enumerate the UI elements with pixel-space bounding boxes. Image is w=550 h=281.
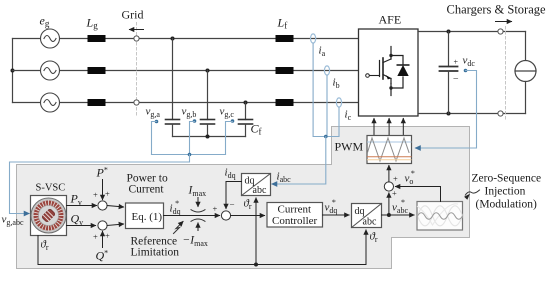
node DC cap minus: [447, 112, 451, 116]
summing junction P: [98, 201, 107, 210]
svg-text:abc: abc: [253, 185, 267, 196]
capacitor Cf b: [201, 71, 215, 137]
wire vabc up to junction: [388, 193, 390, 215]
node iabc bus junction: [324, 135, 328, 139]
wire zero sequence output: [396, 187, 441, 202]
svg-text:idq*: idq*: [170, 199, 181, 216]
svg-text:vdq*: vdq*: [325, 198, 338, 215]
node cap c tap: [244, 101, 248, 105]
wire capacitor neutral bus: [173, 136, 246, 138]
wire Q star arrow: [102, 232, 104, 248]
source eg phase a: [41, 29, 60, 48]
svg-text:+: +: [105, 231, 110, 241]
source eg phase b: [41, 61, 60, 80]
wire mod to PWM: [388, 166, 390, 182]
gate signal arrow 2: [388, 119, 390, 136]
summing junction Q: [98, 221, 107, 230]
current sensor ic: [336, 98, 341, 107]
svg-text:Current: Current: [129, 184, 165, 196]
block dq abc current: [242, 174, 271, 197]
wire ia blue: [313, 43, 326, 136]
block S-VSC: [31, 196, 67, 236]
capacitor Cf c: [239, 103, 253, 137]
inductor Lg phase b: [88, 67, 106, 74]
chargers dashed line: [505, 27, 507, 121]
wire error to CC: [231, 215, 265, 217]
node left bus junction: [11, 69, 15, 73]
grid direction arrow: [130, 29, 144, 31]
current source load: [515, 32, 536, 114]
grid boundary circle a: [134, 36, 139, 41]
control panel background: [17, 127, 470, 269]
zigzag reference limitation arrow: [174, 222, 184, 234]
wire vdc blue: [416, 71, 477, 149]
wire into error junction: [206, 215, 220, 217]
svg-text:Chargers & Storage: Chargers & Storage: [447, 3, 547, 17]
svg-text:+: +: [454, 58, 459, 67]
block zero sequence: [417, 202, 463, 231]
CONTROL_PART: [31, 136, 542, 267]
wire CC to dqabc: [323, 214, 350, 216]
svg-text:−: −: [230, 200, 235, 210]
svg-text:Limitation: Limitation: [131, 247, 180, 259]
wire vga blue: [152, 122, 157, 155]
limiter symbol: [191, 210, 205, 222]
svg-text:+: +: [93, 190, 98, 200]
svg-text:+: +: [392, 188, 397, 198]
node cap b tap: [206, 69, 210, 73]
machine icon: [31, 198, 66, 233]
arrow Imax up: [197, 223, 199, 231]
wire Q to Eq1: [107, 224, 123, 226]
chargers boundary circle plus: [498, 29, 503, 34]
wire theta r to voltage block: [365, 230, 367, 265]
capacitor DC link: [440, 32, 458, 114]
node vdc tap: [464, 69, 468, 73]
chargers boundary circle minus: [498, 111, 503, 116]
wire P to Eq1: [107, 206, 123, 208]
svg-text:S-VSC: S-VSC: [36, 183, 66, 194]
wire theta r bus: [38, 236, 366, 265]
arrow Imax down: [197, 198, 199, 207]
svg-text:Grid: Grid: [122, 8, 144, 22]
inductor Lf phase b: [276, 67, 294, 74]
wire Qv: [67, 225, 96, 227]
node IGBT top: [389, 54, 392, 57]
summing junction modulation: [384, 182, 393, 191]
wire vg bus A: [152, 154, 226, 156]
node vgb tap: [193, 119, 197, 123]
svg-text:Eq. (1): Eq. (1): [132, 211, 163, 223]
chargers direction arrow: [496, 21, 512, 23]
node IGBT bottom: [389, 86, 392, 89]
svg-text:Controller: Controller: [272, 215, 318, 227]
node theta r branch: [254, 263, 258, 267]
block PWM: [367, 136, 412, 164]
converter AFE box: [359, 29, 419, 116]
grid boundary dashed line: [136, 23, 138, 116]
wire DC minus: [418, 113, 526, 115]
block Current Controller: [267, 203, 323, 228]
wire ib blue: [326, 75, 328, 136]
wire iabc bus: [272, 137, 326, 185]
svg-text:–: –: [453, 73, 459, 83]
wire vg bus drop: [10, 155, 190, 214]
wire vabc star: [382, 214, 415, 216]
grid boundary circle c: [134, 100, 139, 105]
wire phase a: [13, 38, 41, 40]
block Eq1: [126, 203, 164, 229]
block dq abc voltage: [352, 204, 382, 228]
wire DC plus: [418, 31, 526, 33]
node vabc junction: [387, 213, 391, 217]
svg-text:dq: dq: [355, 206, 365, 217]
inductor Lg phase c: [88, 99, 106, 106]
svg-text:abc: abc: [363, 217, 377, 228]
gate signal arrow 3: [402, 119, 404, 136]
wire ic blue: [326, 107, 339, 136]
wire idq measured: [226, 182, 242, 209]
svg-text:PWM: PWM: [335, 140, 364, 154]
wire P star arrow: [102, 180, 104, 200]
wire vgc blue: [226, 122, 233, 155]
svg-text:Zero-Sequence: Zero-Sequence: [472, 173, 542, 185]
svg-text:+: +: [93, 232, 98, 242]
inductor Lf phase a: [276, 35, 294, 42]
svg-text:+: +: [213, 204, 218, 214]
current sensor ia: [311, 34, 316, 43]
svg-text:+: +: [105, 189, 110, 199]
inductor Lf phase c: [276, 99, 294, 106]
summing junction error: [221, 211, 230, 220]
diode D1: [391, 56, 409, 89]
node vg bus junction: [188, 153, 192, 157]
wire left bus: [12, 39, 14, 103]
capacitor Cf a: [166, 39, 180, 137]
current sensor ib: [324, 66, 329, 75]
source eg phase c: [41, 93, 60, 112]
squiggle arrow zero sequence: [465, 190, 479, 195]
svg-text:Injection: Injection: [485, 186, 526, 198]
node capacitor bus junction: [206, 135, 210, 139]
gate signal arrow 1: [373, 119, 375, 136]
node vga tap: [155, 120, 159, 124]
svg-text:AFE: AFE: [379, 13, 402, 27]
node vgc tap: [231, 119, 235, 123]
transistor IGBT: [366, 47, 391, 96]
MAIN_CIRCUIT: [2, 3, 547, 228]
wire idq star: [164, 215, 220, 217]
wire vgb blue: [190, 122, 195, 155]
node DC cap plus: [447, 30, 451, 34]
svg-text:(Modulation): (Modulation): [476, 199, 537, 211]
node cap a tap: [171, 37, 175, 41]
wire Pv: [67, 205, 97, 207]
wire phase b: [13, 70, 41, 72]
svg-text:+: +: [393, 174, 398, 184]
svg-text:Current: Current: [278, 204, 312, 216]
wire theta r to current block: [255, 198, 257, 265]
wire phase c: [13, 102, 41, 104]
inductor Lg phase a: [88, 35, 106, 42]
